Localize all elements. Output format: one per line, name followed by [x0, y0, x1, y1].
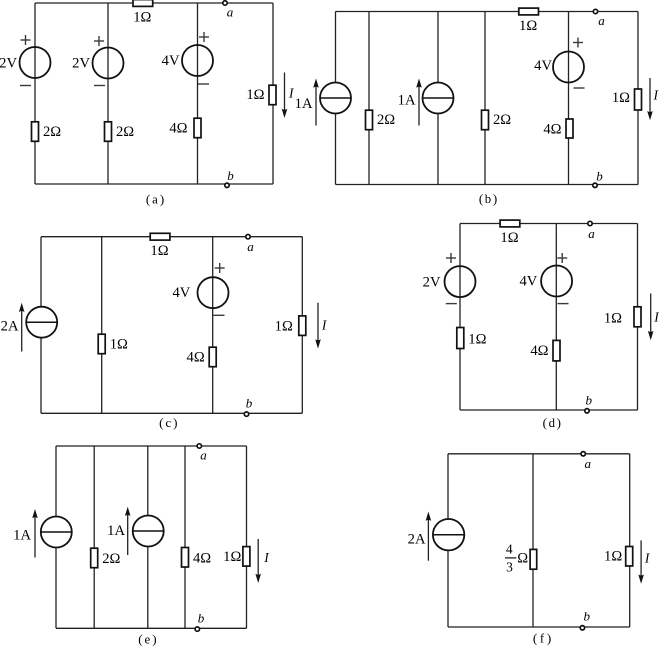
resistor 4ohm (d) [530, 340, 560, 361]
svg-text:1Ω: 1Ω [612, 90, 630, 106]
wire branch 2 (b) [368, 12, 370, 185]
node b (b) [593, 183, 597, 187]
voltage source 4V (c) [198, 277, 229, 308]
voltage source 2V #2 (a) [93, 48, 124, 79]
label 1A #2 (e) [107, 523, 125, 539]
svg-text:1A: 1A [398, 92, 416, 108]
label node a (d) [588, 226, 595, 241]
svg-text:1Ω: 1Ω [110, 336, 128, 352]
resistor 1ohm right (a) [246, 85, 276, 105]
svg-text:2Ω: 2Ω [43, 124, 61, 140]
wire branch 3 (b) [437, 12, 439, 185]
caption (a) [146, 192, 164, 207]
label node b (a) [227, 168, 234, 183]
svg-text:): ) [557, 415, 561, 430]
label 1A #1 (e) [13, 527, 31, 543]
svg-text:a: a [152, 193, 158, 207]
wire branch 3 (a) [197, 3, 199, 184]
svg-text:c: c [165, 416, 171, 430]
wire top (f) [448, 453, 630, 455]
label node b (c) [246, 396, 253, 411]
svg-text:f: f [540, 632, 545, 646]
current source 1A #1 (e) [41, 517, 72, 548]
current arrow I (c) [315, 303, 321, 349]
node b (f) [580, 626, 584, 630]
wire branch 2 (f) [532, 454, 534, 627]
wire right branch (c) [301, 237, 303, 414]
svg-text:4V: 4V [162, 53, 180, 69]
label 2V (d) [423, 275, 441, 291]
label node b (b) [596, 169, 603, 184]
svg-text:b: b [246, 396, 253, 411]
wire branch 2 (e) [93, 446, 95, 628]
node a (b) [593, 9, 597, 13]
wire branch 4 (b) [484, 12, 486, 185]
svg-text:4Ω: 4Ω [543, 121, 561, 137]
svg-text:1Ω: 1Ω [275, 318, 293, 334]
svg-text:b: b [585, 392, 592, 407]
resistor 4ohm (c) [187, 347, 217, 367]
voltage source 2V (d) [445, 266, 476, 297]
label node a (f) [585, 456, 592, 471]
current source 2A (f) [433, 519, 464, 550]
resistor 1ohm right (e) [223, 547, 250, 567]
resistor 4/3ohm (f) [530, 549, 537, 569]
svg-text:3: 3 [506, 559, 513, 574]
label node a (b) [598, 13, 605, 28]
svg-text:1A: 1A [13, 527, 31, 543]
arrow 1A #1 (e) [32, 509, 38, 558]
svg-text:1Ω: 1Ω [133, 9, 151, 25]
minus sign source2 (a) [94, 85, 105, 87]
label node b (f) [583, 609, 590, 624]
minus sign 4V (b) [574, 87, 585, 89]
label 4/3 ohm (f) [505, 541, 528, 574]
arrow 1A #1 (b) [313, 79, 319, 126]
current arrow I (b) [647, 78, 653, 120]
svg-text:(: ( [543, 415, 547, 430]
arrow 2A (c) [19, 303, 25, 352]
svg-text:(: ( [479, 191, 483, 206]
svg-text:4Ω: 4Ω [530, 343, 548, 359]
label I (e) [263, 550, 270, 565]
resistor 2ohm #1 (a) [32, 122, 62, 142]
current arrow I (d) [648, 294, 654, 341]
current source 2A (c) [26, 307, 57, 338]
resistor 2ohm (e) [91, 548, 121, 568]
svg-text:1A: 1A [295, 96, 313, 112]
caption (f) [533, 631, 551, 646]
wire branch 4 (e) [184, 446, 186, 628]
svg-text:b: b [596, 169, 603, 184]
wire left branch (c) [40, 237, 42, 414]
svg-text:2Ω: 2Ω [493, 112, 511, 128]
svg-text:2A: 2A [408, 532, 426, 548]
svg-text:4V: 4V [534, 58, 552, 74]
svg-text:(: ( [533, 631, 537, 646]
label 1A #2 (b) [398, 92, 416, 108]
svg-text:2Ω: 2Ω [377, 112, 395, 128]
svg-text:1Ω: 1Ω [604, 310, 622, 326]
resistor 2ohm #1 (b) [366, 110, 396, 130]
wire top (d) [460, 223, 638, 225]
wire bottom (e) [56, 627, 247, 629]
node b (e) [195, 627, 199, 631]
wire right branch (e) [246, 446, 248, 628]
minus sign 4V (d) [558, 303, 569, 305]
resistor 4ohm (a) [169, 118, 201, 138]
svg-text:b: b [485, 192, 491, 206]
svg-text:1Ω: 1Ω [223, 549, 241, 565]
svg-text:1Ω: 1Ω [519, 18, 537, 34]
node b (d) [585, 409, 589, 413]
resistor 1ohm top (b) [519, 8, 539, 34]
label node a (c) [247, 239, 254, 254]
node a (c) [246, 235, 250, 239]
wire branch 2 (a) [107, 3, 109, 184]
plus sign 4V (c) [215, 263, 225, 273]
label 2A (c) [1, 318, 19, 334]
wire left branch (a) [34, 3, 36, 184]
label 2V source1 (a) [0, 55, 17, 71]
wire top (e) [56, 445, 247, 447]
current arrow I (f) [638, 540, 644, 583]
resistor 4ohm (e) [182, 548, 212, 568]
resistor 1ohm right (c) [275, 316, 306, 336]
node b (a) [225, 183, 229, 187]
wire bottom (d) [460, 409, 638, 411]
resistor 1ohm left (d) [457, 328, 487, 349]
wire top (c) [41, 236, 302, 238]
svg-text:): ) [493, 191, 497, 206]
resistor 1ohm top (d) [500, 220, 520, 246]
wire right branch (f) [629, 454, 631, 627]
wire left branch (b) [335, 12, 337, 185]
svg-text:1Ω: 1Ω [246, 87, 264, 103]
label 2A (f) [408, 532, 426, 548]
resistor 1ohm right (b) [612, 89, 642, 110]
wire top (a) [35, 2, 273, 4]
label node b (e) [198, 610, 205, 625]
label node b (d) [585, 392, 592, 407]
svg-text:a: a [598, 13, 605, 28]
svg-text:2V: 2V [0, 55, 17, 71]
svg-text:Ω: Ω [517, 550, 528, 566]
svg-text:b: b [227, 168, 234, 183]
caption (b) [479, 191, 497, 206]
resistor 1ohm right (d) [604, 307, 641, 327]
plus sign source1 (a) [21, 35, 31, 45]
plus sign 4V (b) [573, 38, 583, 48]
wire bottom (b) [336, 184, 639, 186]
minus sign 4V (c) [214, 314, 225, 316]
svg-text:(: ( [138, 632, 142, 647]
arrow 1A #2 (e) [125, 507, 131, 555]
label 1A #1 (b) [295, 96, 313, 112]
resistor 1ohm right (f) [604, 547, 633, 567]
label node a (a) [227, 4, 234, 19]
label I (d) [653, 309, 660, 324]
arrow 1A #2 (b) [416, 79, 422, 126]
resistor 1ohm top (a) [133, 0, 153, 25]
caption (c) [159, 415, 177, 430]
svg-text:4: 4 [506, 541, 513, 556]
svg-text:d: d [549, 416, 556, 430]
voltage source 4V (a) [182, 45, 213, 76]
resistor 4ohm (b) [543, 119, 573, 138]
wire bottom (f) [448, 626, 630, 628]
svg-text:): ) [160, 192, 164, 207]
resistor 2ohm #2 (a) [105, 122, 135, 142]
wire left branch (d) [459, 224, 461, 411]
svg-text:2Ω: 2Ω [102, 551, 120, 567]
svg-text:2V: 2V [423, 275, 441, 291]
svg-text:4Ω: 4Ω [193, 550, 211, 566]
plus sign 4V (d) [557, 253, 567, 263]
svg-text:2V: 2V [72, 55, 90, 71]
wire branch 5 (b) [568, 12, 570, 185]
svg-text:4V: 4V [172, 285, 190, 301]
svg-text:2Ω: 2Ω [116, 124, 134, 140]
node a (e) [197, 444, 201, 448]
caption (d) [543, 415, 561, 430]
svg-text:1A: 1A [107, 523, 125, 539]
svg-text:1Ω: 1Ω [500, 230, 518, 246]
svg-text:a: a [585, 456, 592, 471]
wire left branch (e) [55, 446, 57, 628]
wire branch 3 (e) [147, 446, 149, 628]
caption (e) [138, 632, 156, 647]
svg-text:a: a [247, 239, 254, 254]
svg-text:a: a [588, 226, 595, 241]
svg-text:a: a [227, 4, 234, 19]
svg-text:e: e [145, 633, 151, 647]
label 4V (b) [534, 58, 552, 74]
svg-text:1Ω: 1Ω [604, 549, 622, 565]
current arrow I (a) [282, 73, 288, 119]
label I (b) [653, 88, 660, 103]
label I (a) [288, 86, 295, 101]
voltage source 4V (d) [541, 266, 572, 297]
svg-text:b: b [198, 610, 205, 625]
wire left branch (f) [447, 454, 449, 627]
wire branch 3 (c) [212, 237, 214, 414]
wire right branch (b) [637, 12, 639, 185]
svg-text:a: a [200, 448, 207, 463]
voltage source 2V #1 (a) [20, 47, 51, 78]
wire branch 2 (d) [555, 224, 557, 411]
node a (a) [223, 1, 227, 5]
svg-text:(: ( [159, 415, 163, 430]
resistor 1ohm top (c) [150, 233, 170, 259]
node a (f) [581, 452, 585, 456]
minus sign 2V (d) [446, 303, 457, 305]
current source 1A #2 (e) [133, 516, 164, 547]
label I (c) [321, 318, 328, 333]
current source 1A #1 (b) [320, 83, 351, 114]
resistor 1ohm branch2 (c) [98, 334, 128, 354]
svg-text:(: ( [146, 192, 150, 207]
label 4V (c) [172, 285, 190, 301]
wire bottom (c) [41, 412, 302, 414]
wire branch 2 (c) [101, 237, 103, 414]
minus sign source3 (a) [198, 83, 209, 85]
wire right branch (a) [272, 3, 274, 184]
label 4V source3 (a) [162, 53, 180, 69]
label I (f) [644, 551, 651, 566]
svg-text:1Ω: 1Ω [468, 331, 486, 347]
wire top (b) [336, 11, 639, 13]
svg-text:): ) [173, 415, 177, 430]
plus sign source2 (a) [94, 36, 104, 46]
voltage source 4V (b) [553, 52, 584, 83]
svg-text:4V: 4V [519, 273, 537, 289]
minus sign source1 (a) [20, 85, 31, 87]
svg-text:b: b [583, 609, 590, 624]
resistor 2ohm #2 (b) [482, 110, 512, 130]
label 4V (d) [519, 273, 537, 289]
svg-text:): ) [547, 631, 551, 646]
plus sign source3 (a) [199, 32, 209, 42]
wire bottom (a) [35, 183, 273, 185]
svg-text:4Ω: 4Ω [187, 349, 205, 365]
svg-text:4Ω: 4Ω [169, 120, 187, 136]
label node a (e) [200, 448, 207, 463]
svg-text:): ) [152, 632, 156, 647]
current arrow I (e) [255, 539, 261, 583]
wire right branch (d) [637, 224, 639, 411]
node b (c) [244, 412, 248, 416]
label 2V source2 (a) [72, 55, 90, 71]
plus sign 2V (d) [446, 253, 456, 263]
current source 1A #2 (b) [423, 83, 454, 114]
node a (d) [588, 221, 592, 225]
arrow 2A (f) [426, 512, 432, 561]
svg-text:2A: 2A [1, 318, 19, 334]
svg-text:1Ω: 1Ω [150, 243, 168, 259]
